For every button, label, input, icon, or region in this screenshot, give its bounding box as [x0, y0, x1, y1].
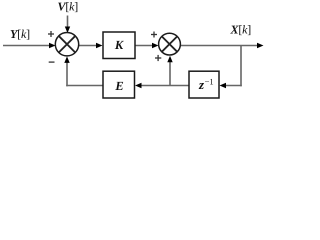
svg-text:−1: −1 [205, 76, 214, 86]
svg-text:E: E [114, 79, 123, 93]
svg-text:X[k]: X[k] [230, 23, 252, 37]
svg-text:Y[k]: Y[k] [10, 27, 30, 41]
svg-text:V[k]: V[k] [58, 0, 79, 13]
